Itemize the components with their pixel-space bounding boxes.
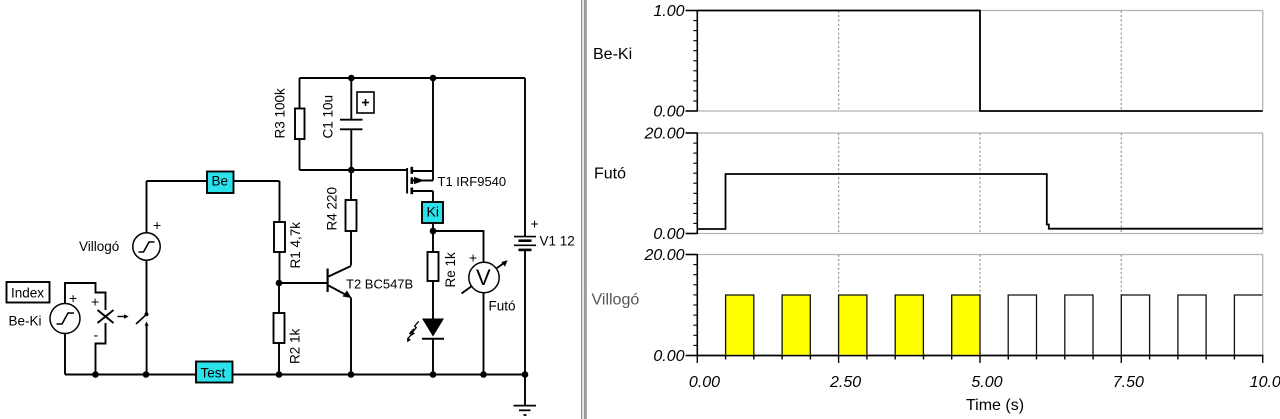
resistor R2 <box>274 283 303 375</box>
svg-text:Villogó: Villogó <box>79 239 119 254</box>
svg-text:T1 IRF9540: T1 IRF9540 <box>438 174 507 189</box>
transistor T2 <box>328 266 414 375</box>
plot frames gray gridlines <box>697 11 1262 356</box>
resistor R4 <box>325 170 357 266</box>
resistor R1 <box>274 181 303 283</box>
svg-text:V1 12: V1 12 <box>540 234 575 249</box>
voltmeter U Futo <box>462 249 516 374</box>
svg-text:20.00: 20.00 <box>643 247 684 264</box>
resistor Re <box>428 231 459 319</box>
x axis ticks <box>697 356 1262 364</box>
svg-text:2.50: 2.50 <box>829 374 861 391</box>
svg-text:+: + <box>69 290 77 306</box>
svg-text:Villogó: Villogó <box>592 292 640 309</box>
svg-text:Be-Ki: Be-Ki <box>593 46 632 63</box>
svg-text:0.00: 0.00 <box>689 374 720 391</box>
label Be <box>207 172 234 194</box>
svg-text:Index: Index <box>11 286 44 301</box>
LED D1 <box>422 319 444 375</box>
node junction X minus <box>92 371 99 378</box>
svg-text:Be: Be <box>212 174 229 189</box>
battery V1 <box>514 78 575 375</box>
CHART <box>581 0 1280 419</box>
svg-text:+: + <box>531 215 539 231</box>
svg-text:Be-Ki: Be-Ki <box>9 314 42 329</box>
wire to voltmeter <box>433 231 484 263</box>
node junction below Ki <box>430 228 437 235</box>
dashed vertical gridlines <box>839 11 1122 356</box>
node junction top C1 <box>348 75 355 82</box>
svg-text:+: + <box>469 249 477 265</box>
wire bottom rail <box>65 374 525 376</box>
y axis labels <box>643 3 684 365</box>
svg-text:Futó: Futó <box>594 166 626 183</box>
svg-text:+: + <box>91 294 99 310</box>
capacitor C1 <box>321 78 363 170</box>
window splitter divider <box>581 0 587 419</box>
svg-text:Time (s): Time (s) <box>966 397 1024 414</box>
svg-text:R2 1k: R2 1k <box>288 328 303 364</box>
wire Be net <box>147 180 280 182</box>
node junction switch bottom <box>143 371 150 378</box>
wire top rail <box>300 77 526 79</box>
mosfet T1 <box>407 78 506 202</box>
node junction R2 bottom <box>276 371 283 378</box>
y axes with ticks <box>686 10 698 356</box>
switch SW1 <box>136 260 149 375</box>
x axis labels <box>689 374 1280 391</box>
svg-text:V: V <box>476 265 491 290</box>
svg-text:Test: Test <box>201 366 226 381</box>
waveform Futo <box>697 174 1262 229</box>
node junction top T1 <box>430 75 437 82</box>
svg-text:1.00: 1.00 <box>653 3 684 20</box>
svg-text:R3 100k: R3 100k <box>273 88 288 139</box>
svg-text:0.00: 0.00 <box>653 348 684 365</box>
node junction gate rail <box>348 167 355 174</box>
svg-text:T2 BC547B: T2 BC547B <box>346 277 413 292</box>
svg-text:10.00: 10.00 <box>1250 374 1280 391</box>
svg-text:20.00: 20.00 <box>643 126 684 143</box>
waveform Be-Ki <box>697 11 1262 112</box>
svg-text:Futó: Futó <box>489 299 516 314</box>
source Be-Ki VG1 <box>9 283 106 375</box>
svg-text:+: + <box>153 217 161 233</box>
node junction LED bottom <box>430 371 437 378</box>
x axis <box>697 355 1264 357</box>
node junction voltmeter bottom <box>480 371 487 378</box>
waveform Villogo yellow pulses <box>726 295 980 355</box>
LED light arrows <box>407 321 419 342</box>
resistor R3 <box>273 78 305 170</box>
node label Ki <box>422 202 443 223</box>
svg-text:Ki: Ki <box>427 204 439 220</box>
svg-text:7.50: 7.50 <box>1113 374 1144 391</box>
label Index <box>7 282 50 303</box>
wire base <box>279 282 328 284</box>
svg-text:Re 1k: Re 1k <box>443 252 458 288</box>
node junction battery bottom <box>522 371 529 378</box>
wire gate rail <box>300 169 407 171</box>
node junction T2 emitter <box>348 371 355 378</box>
waveform Villogo white pulses <box>1008 295 1262 355</box>
svg-text:0.00: 0.00 <box>653 104 684 121</box>
svg-text:R1 4,7k: R1 4,7k <box>288 222 303 269</box>
svg-text:-: - <box>94 327 99 343</box>
ground <box>514 375 537 416</box>
svg-text:0.00: 0.00 <box>653 226 684 243</box>
controlled switch X <box>91 294 129 375</box>
source Villogo VG2 <box>79 181 161 260</box>
svg-text:C1 10u: C1 10u <box>321 95 336 139</box>
y axis minor ticks <box>693 21 697 346</box>
wire Ki to node <box>432 222 434 231</box>
svg-text:R4 220: R4 220 <box>325 187 340 231</box>
svg-text:5.00: 5.00 <box>971 374 1002 391</box>
node junction R1 R2 <box>276 280 283 287</box>
C1 polarity + box <box>357 92 374 113</box>
label Test <box>196 362 233 383</box>
